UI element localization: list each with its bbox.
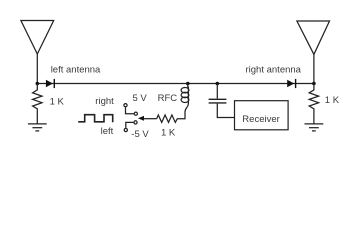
svg-text:1 K: 1 K bbox=[325, 95, 340, 106]
svg-text:right: right bbox=[95, 96, 114, 107]
svg-text:1 K: 1 K bbox=[161, 128, 176, 139]
svg-text:5 V: 5 V bbox=[133, 93, 148, 104]
svg-text:left antenna: left antenna bbox=[51, 64, 101, 75]
svg-text:right antenna: right antenna bbox=[246, 65, 302, 76]
svg-text:Receiver: Receiver bbox=[242, 114, 279, 125]
svg-text:1 K: 1 K bbox=[50, 97, 65, 108]
svg-text:RFC: RFC bbox=[158, 93, 178, 104]
svg-text:left: left bbox=[101, 126, 114, 137]
svg-text:-5 V: -5 V bbox=[131, 129, 149, 140]
